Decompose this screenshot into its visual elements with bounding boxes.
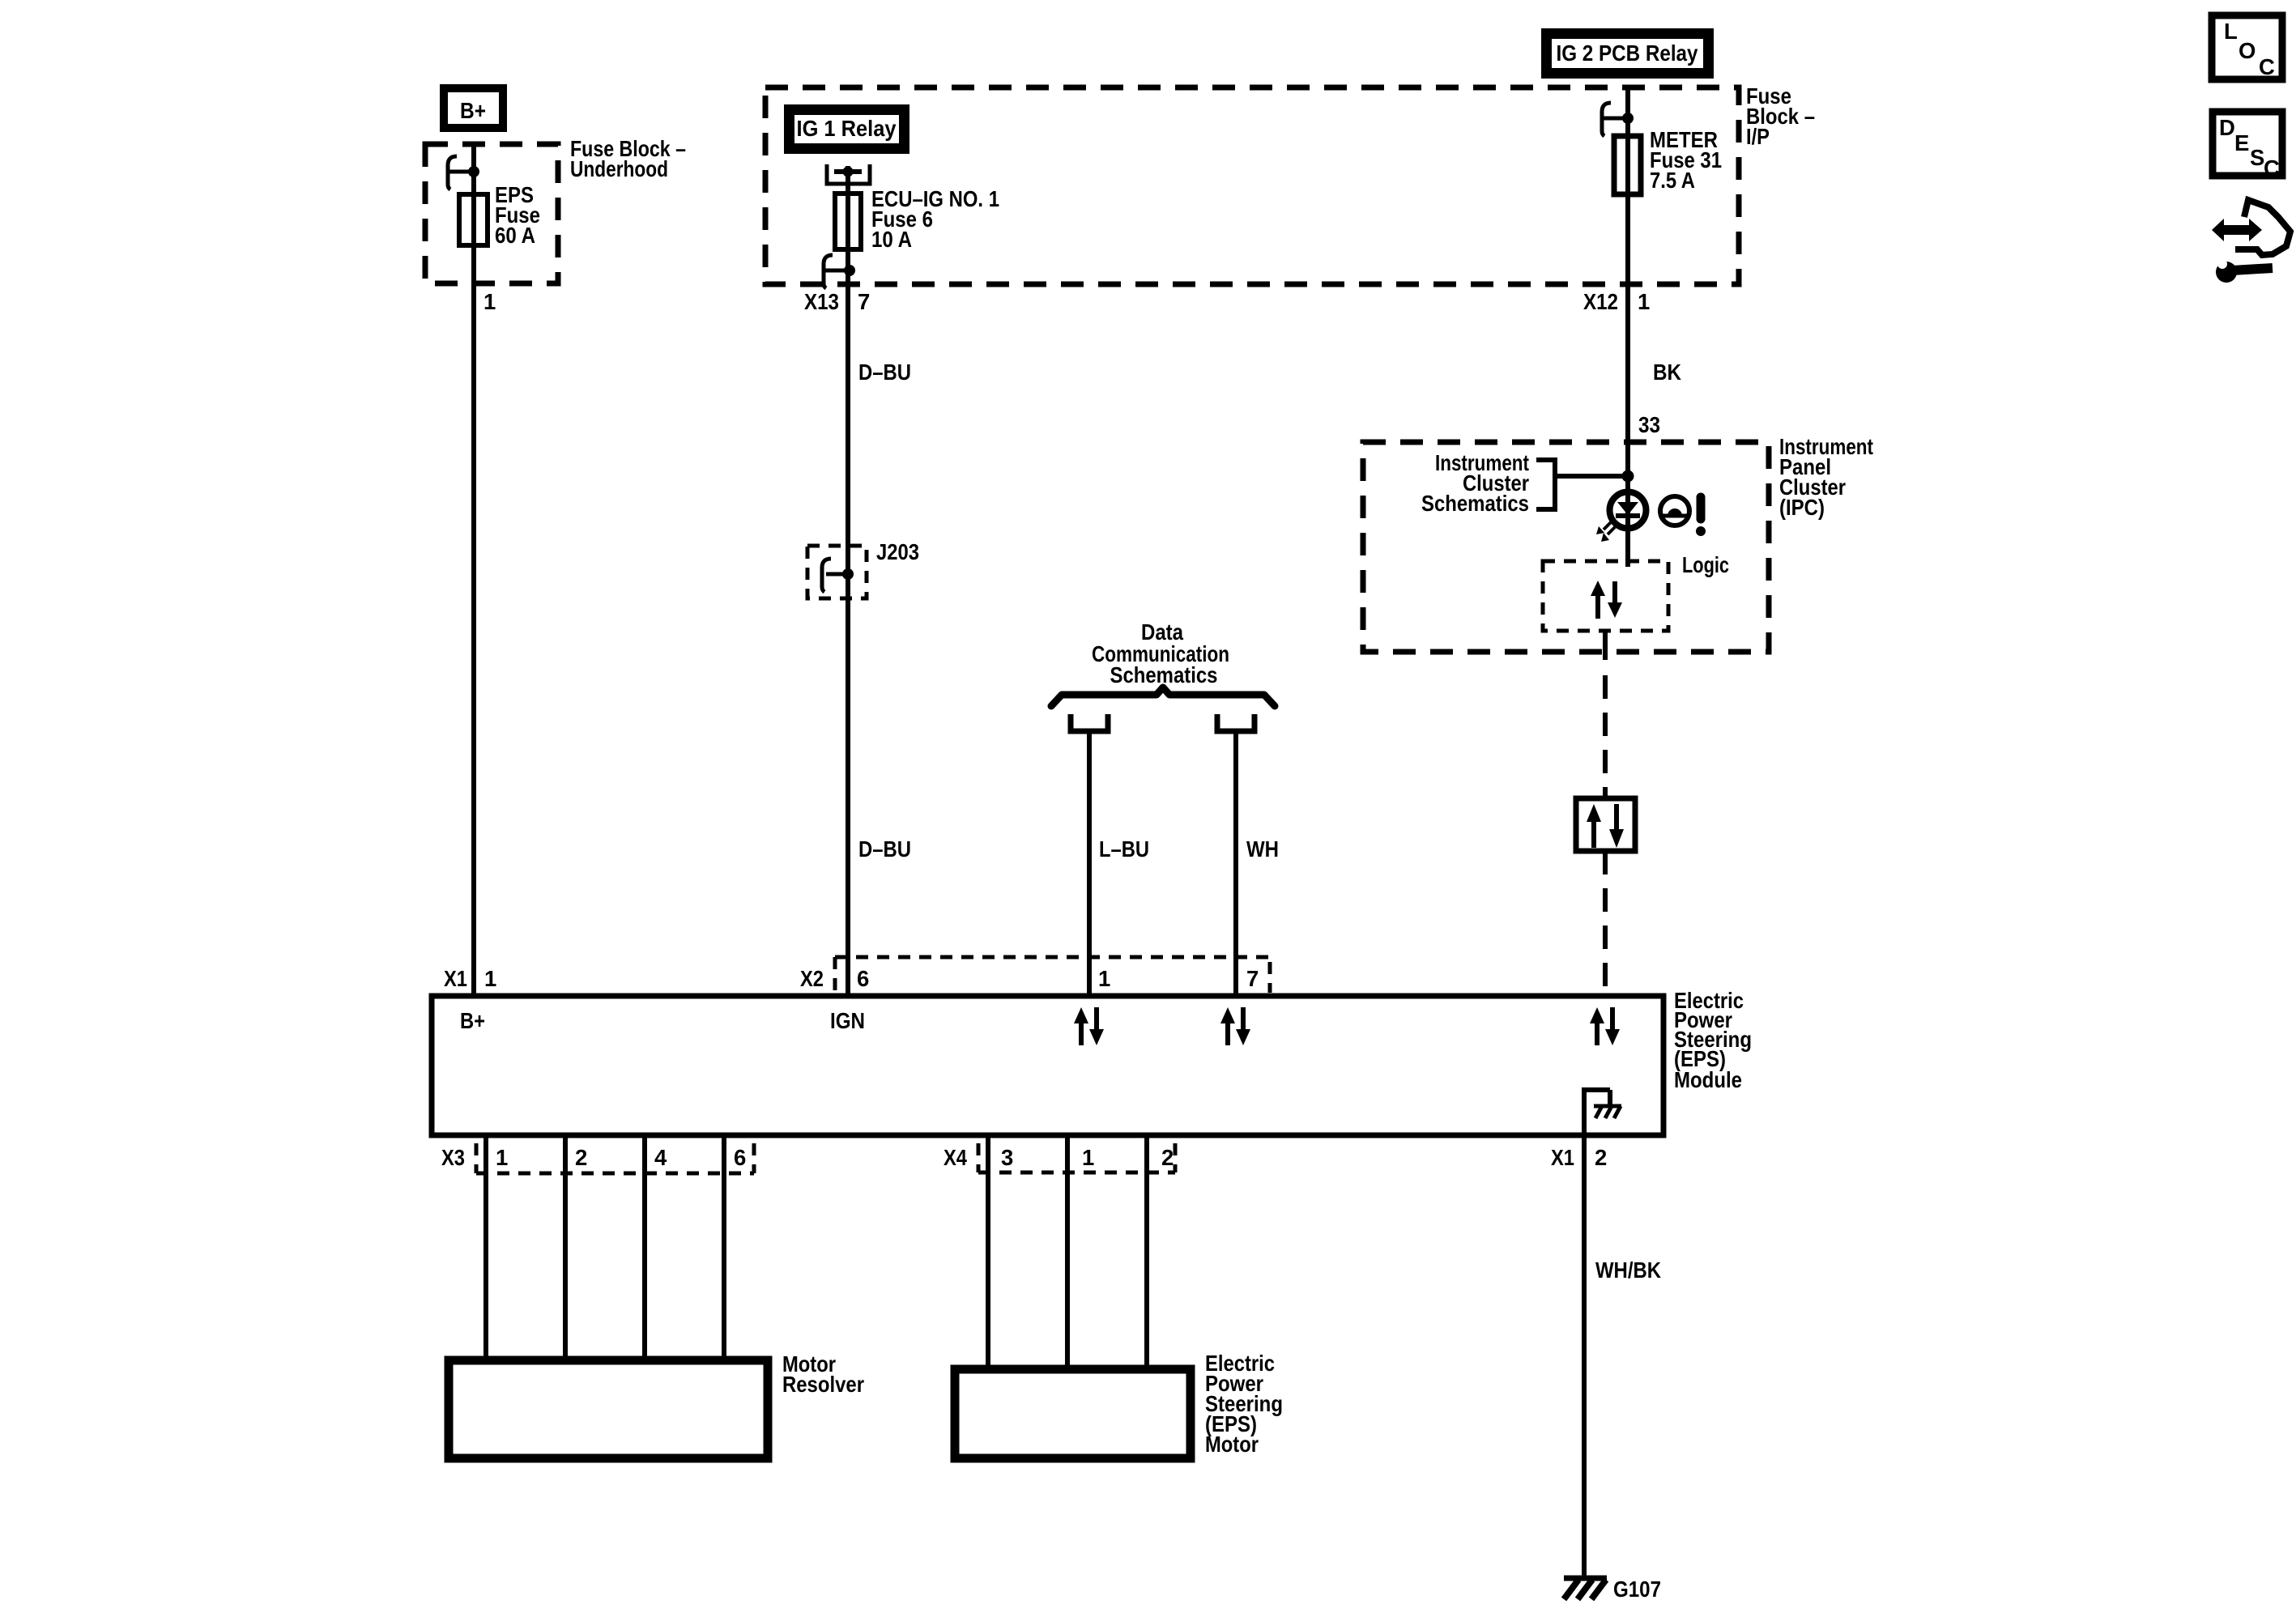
label: Data Communication Schematics (1092, 619, 1229, 687)
svg-text:1: 1 (496, 1145, 508, 1170)
wire W2: IG1 relay through ECU-IG fuse to EPS module X2-6 (846, 166, 850, 996)
wire W4: WH/BK ground wire to G107 (1582, 1135, 1587, 1576)
terminal hook at METER fuse top (1602, 103, 1634, 136)
svg-text:1: 1 (1638, 289, 1650, 314)
svg-text:X1: X1 (444, 966, 467, 991)
svg-text:7: 7 (1246, 966, 1259, 991)
svg-text:2: 2 (1161, 1145, 1174, 1170)
wire W3: IG2 PCB relay through METER fuse to IPC pin 33 (1625, 86, 1630, 567)
svg-text:L: L (2224, 19, 2238, 44)
svg-text:1: 1 (484, 966, 496, 991)
internal ground symbol inside module (1582, 1087, 1621, 1138)
connector X13 pin 7 labels (804, 289, 870, 314)
svg-text:BK: BK (1653, 360, 1681, 385)
svg-text:O: O (2238, 38, 2256, 63)
connector X4 pin labels (944, 1145, 1174, 1170)
svg-text:X13: X13 (804, 289, 839, 314)
steering wheel warning symbol with ! (1660, 496, 1706, 536)
svg-text:D–BU: D–BU (858, 836, 911, 862)
label: Fuse Block - Underhood (570, 136, 686, 181)
splice J203 (807, 539, 919, 598)
svg-text:2: 2 (1595, 1145, 1607, 1170)
Fuse Block - I/P big dashed box (765, 87, 1739, 284)
wire: WH serial data to EPS module X2-7 (1233, 731, 1238, 996)
svg-text:B+: B+ (460, 98, 486, 123)
svg-text:2: 2 (575, 1145, 587, 1170)
label: Motor Resolver (782, 1351, 864, 1397)
DESC reference box (2213, 112, 2282, 181)
serial data arrows inside logic box (1591, 581, 1622, 619)
svg-text:6: 6 (734, 1145, 746, 1170)
label: METER Fuse 31 7.5 A (1650, 127, 1722, 193)
dashed serial data wire (serial box to EPS module) (1603, 851, 1608, 996)
svg-text:3: 3 (1001, 1145, 1013, 1170)
connector X4 dashed bracket (978, 1143, 1175, 1172)
svg-text:IG 1 Relay: IG 1 Relay (797, 116, 897, 141)
svg-text:WH: WH (1246, 836, 1279, 862)
Instrument Panel Cluster dashed box (1363, 442, 1769, 652)
svg-text:Schematics: Schematics (1421, 491, 1529, 516)
Electric Power Steering (EPS) Module box (432, 996, 1663, 1135)
svg-text:IGN: IGN (830, 1008, 865, 1033)
label: Electric Power Steering (EPS) Motor (1205, 1351, 1283, 1457)
label: Fuse Block - I/P (1746, 83, 1815, 149)
label: EPS Fuse 60 A (495, 182, 540, 248)
wire: motor resolver pin 1 (483, 1135, 488, 1360)
svg-text:G107: G107 (1613, 1577, 1661, 1602)
ground G107 symbol (1564, 1578, 1607, 1599)
LOC reference box (2212, 15, 2282, 79)
B+ power label box (440, 84, 507, 132)
svg-text:C: C (2259, 54, 2275, 79)
wire: EPS motor pin 3 (986, 1135, 990, 1369)
wire: L-BU serial data to EPS module X2-1 (1087, 731, 1092, 996)
wire: EPS motor pin 2 (1144, 1135, 1149, 1369)
svg-text:Module: Module (1674, 1067, 1742, 1092)
fuse F3: METER Fuse 31 7.5 A (1614, 136, 1641, 194)
svg-text:Resolver: Resolver (782, 1372, 864, 1397)
connector X12 pin 1 labels (1583, 289, 1650, 314)
connector symbol (L-BU to data comm) (1071, 714, 1108, 731)
wire W1: B+ feed, EPS fuse to EPS module X1-1 (471, 143, 476, 996)
wire: motor resolver pin 6 (722, 1135, 726, 1360)
connector X2 dashed bracket (835, 957, 1270, 993)
EPS warning indicator LED (1596, 492, 1646, 543)
relay contact bracket (IG 1 relay output) (827, 164, 870, 184)
junction node on pin 33 wire (1622, 470, 1634, 483)
serial arrows at module pin X2-7 (1220, 1007, 1250, 1045)
svg-text:7: 7 (858, 289, 870, 314)
fuse F2: ECU-IG NO.1 Fuse 6 10 A (835, 194, 861, 249)
svg-text:X1: X1 (1551, 1145, 1574, 1170)
svg-text:X4: X4 (944, 1145, 968, 1170)
label: Instrument Panel Cluster (IPC) (1779, 434, 1873, 520)
logic dashed box (1543, 561, 1668, 631)
svg-text:4: 4 (654, 1145, 667, 1170)
svg-text:7.5 A: 7.5 A (1650, 168, 1695, 193)
connector X3 dashed bracket (476, 1143, 754, 1173)
svg-text:(IPC): (IPC) (1779, 495, 1825, 520)
connector X3 pin labels (441, 1145, 746, 1170)
svg-text:1: 1 (1082, 1145, 1094, 1170)
connector symbol (WH to data comm) (1217, 714, 1254, 731)
Electric Power Steering (EPS) Motor box (955, 1369, 1191, 1458)
svg-text:X3: X3 (441, 1145, 465, 1170)
svg-text:WH/BK: WH/BK (1595, 1257, 1661, 1283)
svg-text:S: S (2250, 145, 2264, 170)
wire: motor resolver pin 4 (642, 1135, 647, 1360)
bracket to instrument cluster schematics (1536, 460, 1555, 509)
fuse F1: EPS Fuse 60 A (459, 194, 488, 245)
svg-text:I/P: I/P (1746, 124, 1770, 149)
Motor Resolver box (449, 1360, 768, 1458)
svg-text:C: C (2264, 155, 2280, 181)
label: Electric Power Steering (EPS) Module (1674, 988, 1752, 1092)
brace for data communication schematics (1051, 687, 1275, 706)
svg-text:E: E (2234, 130, 2249, 155)
connector X1 pin 1 labels (module top) (444, 966, 496, 991)
svg-text:IG 2 PCB Relay: IG 2 PCB Relay (1557, 40, 1699, 66)
svg-text:Schematics: Schematics (1110, 662, 1218, 687)
serial arrows at module serial pin (1590, 1007, 1620, 1045)
serial data link box (1576, 798, 1635, 851)
svg-text:Underhood: Underhood (570, 156, 668, 181)
Fuse Block - Underhood dashed box (425, 144, 558, 283)
svg-text:D: D (2219, 115, 2235, 140)
svg-text:D–BU: D–BU (858, 360, 911, 385)
svg-text:X12: X12 (1583, 289, 1618, 314)
wire from bracket to node (1555, 474, 1628, 479)
svg-text:6: 6 (857, 966, 869, 991)
IG 1 Relay label box (784, 104, 909, 154)
terminal hook below ECU-IG fuse (824, 255, 855, 288)
svg-text:B+: B+ (460, 1008, 485, 1033)
svg-text:1: 1 (483, 289, 496, 314)
svg-text:1: 1 (1098, 966, 1110, 991)
connector X2 pin labels (800, 966, 1259, 991)
wire: motor resolver pin 2 (563, 1135, 568, 1360)
label: Instrument Cluster Schematics (1421, 450, 1529, 516)
svg-text:L–BU: L–BU (1099, 836, 1149, 862)
svg-text:Motor: Motor (1205, 1432, 1259, 1457)
svg-text:60 A: 60 A (495, 223, 535, 248)
description icon (double arrow, panel outline, wrench) (2212, 200, 2290, 283)
IG 2 PCB Relay label box (1541, 28, 1714, 79)
svg-text:33: 33 (1638, 412, 1660, 437)
svg-text:10 A: 10 A (871, 227, 912, 252)
connector X1 pin 2 labels (module bottom right) (1551, 1145, 1607, 1170)
serial arrows at module pin X2-1 (1074, 1007, 1104, 1045)
svg-text:X2: X2 (800, 966, 824, 991)
svg-text:J203: J203 (876, 539, 919, 564)
label: ECU-IG NO. 1 Fuse 6 10 A (871, 186, 999, 252)
wire: EPS motor pin 1 (1065, 1135, 1070, 1369)
svg-text:Logic: Logic (1682, 552, 1729, 577)
dashed serial data wire (IPC to serial box) (1603, 631, 1608, 660)
terminal hook at EPS fuse top (448, 156, 479, 189)
